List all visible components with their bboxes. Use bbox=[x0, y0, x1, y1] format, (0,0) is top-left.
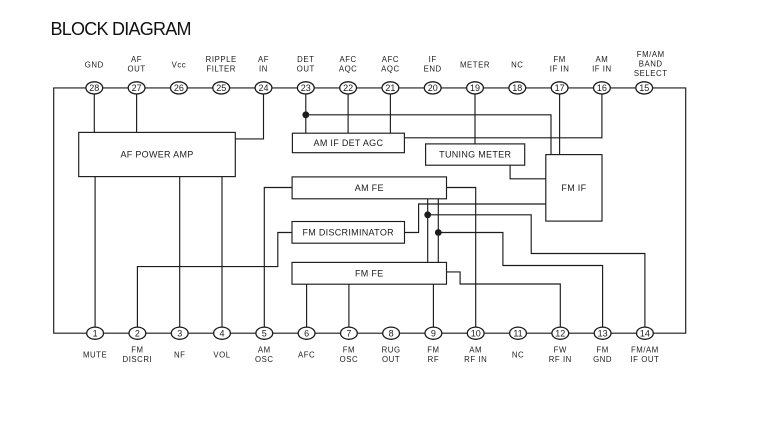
svg-text:FILTER: FILTER bbox=[206, 65, 236, 74]
svg-text:6: 6 bbox=[304, 328, 309, 338]
svg-text:FM: FM bbox=[131, 346, 143, 355]
svg-text:23: 23 bbox=[301, 83, 311, 93]
svg-text:AF: AF bbox=[131, 55, 142, 64]
svg-text:12: 12 bbox=[555, 328, 565, 338]
svg-text:RUG: RUG bbox=[382, 346, 401, 355]
svg-text:RF IN: RF IN bbox=[464, 355, 487, 364]
svg-text:VOL: VOL bbox=[213, 351, 230, 360]
svg-text:28: 28 bbox=[89, 83, 99, 93]
svg-text:NF: NF bbox=[174, 351, 186, 360]
svg-text:NC: NC bbox=[512, 351, 524, 360]
svg-text:7: 7 bbox=[346, 328, 351, 338]
svg-text:AM FE: AM FE bbox=[355, 183, 384, 193]
svg-text:15: 15 bbox=[639, 83, 649, 93]
svg-text:FM DISCRIMINATOR: FM DISCRIMINATOR bbox=[302, 227, 394, 237]
svg-text:OUT: OUT bbox=[382, 355, 400, 364]
svg-text:3: 3 bbox=[177, 328, 182, 338]
svg-text:BLOCK DIAGRAM: BLOCK DIAGRAM bbox=[51, 19, 191, 39]
svg-text:OSC: OSC bbox=[340, 355, 359, 364]
svg-text:2: 2 bbox=[135, 328, 140, 338]
svg-text:TUNING METER: TUNING METER bbox=[439, 150, 511, 160]
svg-text:OSC: OSC bbox=[255, 355, 274, 364]
svg-text:DISCRI: DISCRI bbox=[123, 355, 153, 364]
svg-text:END: END bbox=[424, 65, 442, 74]
svg-text:FW: FW bbox=[554, 346, 567, 355]
svg-text:25: 25 bbox=[216, 83, 226, 93]
svg-text:17: 17 bbox=[555, 83, 565, 93]
svg-text:SELECT: SELECT bbox=[634, 69, 668, 78]
svg-text:IN: IN bbox=[259, 65, 268, 74]
svg-text:16: 16 bbox=[597, 83, 607, 93]
svg-text:FM FE: FM FE bbox=[355, 268, 384, 278]
svg-text:AQC: AQC bbox=[339, 65, 358, 74]
svg-text:19: 19 bbox=[470, 83, 480, 93]
svg-text:FM: FM bbox=[427, 346, 439, 355]
svg-text:RIPPLE: RIPPLE bbox=[206, 55, 237, 64]
svg-text:24: 24 bbox=[258, 83, 268, 93]
svg-text:GND: GND bbox=[85, 61, 104, 70]
svg-text:8: 8 bbox=[389, 328, 394, 338]
svg-text:AFC: AFC bbox=[339, 55, 356, 64]
svg-text:AM IF DET AGC: AM IF DET AGC bbox=[314, 138, 384, 148]
svg-text:26: 26 bbox=[174, 83, 184, 93]
svg-text:AQC: AQC bbox=[381, 65, 400, 74]
svg-text:9: 9 bbox=[431, 328, 436, 338]
svg-text:OUT: OUT bbox=[128, 65, 146, 74]
svg-text:AM: AM bbox=[596, 55, 609, 64]
svg-text:GND: GND bbox=[593, 355, 612, 364]
svg-text:AF: AF bbox=[258, 55, 269, 64]
svg-text:RF: RF bbox=[428, 355, 440, 364]
svg-text:OUT: OUT bbox=[297, 65, 315, 74]
svg-text:AFC: AFC bbox=[382, 55, 399, 64]
svg-text:IF IN: IF IN bbox=[592, 65, 612, 74]
svg-text:FM: FM bbox=[596, 346, 608, 355]
svg-text:14: 14 bbox=[640, 328, 650, 338]
svg-text:21: 21 bbox=[385, 83, 395, 93]
svg-text:NC: NC bbox=[511, 61, 523, 70]
svg-text:IF IN: IF IN bbox=[550, 65, 570, 74]
svg-text:RF IN: RF IN bbox=[549, 355, 572, 364]
svg-text:AFC: AFC bbox=[298, 351, 315, 360]
svg-text:4: 4 bbox=[219, 328, 224, 338]
svg-text:MUTE: MUTE bbox=[83, 351, 107, 360]
svg-text:DET: DET bbox=[297, 55, 314, 64]
svg-text:FM/AM: FM/AM bbox=[637, 50, 665, 59]
svg-text:11: 11 bbox=[513, 328, 522, 338]
svg-text:AM: AM bbox=[469, 346, 482, 355]
svg-text:FM IF: FM IF bbox=[561, 183, 586, 193]
svg-text:Vcc: Vcc bbox=[172, 61, 187, 70]
svg-text:AM: AM bbox=[258, 346, 271, 355]
svg-text:METER: METER bbox=[460, 61, 490, 70]
svg-text:FM/AM: FM/AM bbox=[631, 346, 659, 355]
svg-text:13: 13 bbox=[598, 328, 608, 338]
svg-text:10: 10 bbox=[471, 328, 481, 338]
svg-text:20: 20 bbox=[428, 83, 438, 93]
svg-text:22: 22 bbox=[343, 83, 353, 93]
svg-text:18: 18 bbox=[512, 83, 522, 93]
svg-text:IF: IF bbox=[429, 55, 437, 64]
svg-text:1: 1 bbox=[93, 328, 98, 338]
svg-text:5: 5 bbox=[262, 328, 267, 338]
svg-text:27: 27 bbox=[132, 83, 142, 93]
svg-text:FM: FM bbox=[553, 55, 565, 64]
svg-text:FM: FM bbox=[343, 346, 355, 355]
svg-text:BAND: BAND bbox=[639, 60, 663, 69]
svg-text:IF OUT: IF OUT bbox=[630, 355, 659, 364]
svg-text:AF POWER AMP: AF POWER AMP bbox=[120, 150, 193, 160]
